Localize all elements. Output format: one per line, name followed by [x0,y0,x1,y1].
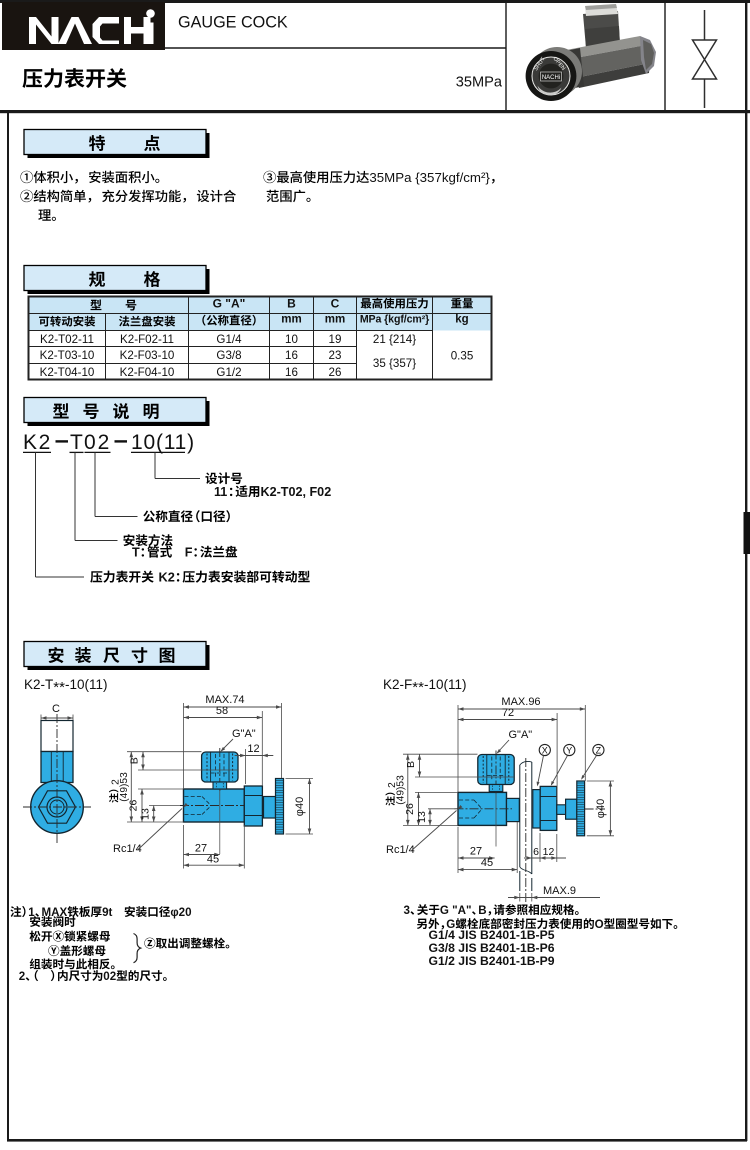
svg-text:3: 3 [404,904,411,917]
svg-text:2: 2 [19,970,25,983]
svg-text:6: 6 [533,846,539,858]
svg-text:K2: K2 [159,570,175,585]
dim 53 (49) [130,752,132,822]
svg-text:45: 45 [481,857,493,869]
svg-text:mm: mm [325,314,345,326]
leader: design number [154,452,156,478]
svg-text:19: 19 [329,333,342,346]
cap nut Y [540,786,557,830]
front view: knob circle [31,781,84,834]
svg-text:11: 11 [214,485,227,499]
front view: center lines [23,806,91,808]
svg-text:0.35: 0.35 [451,349,474,362]
dim phi40 [587,780,614,782]
svg-text:72: 72 [502,707,514,719]
dim 12 [245,749,247,784]
svg-text:26: 26 [128,800,140,812]
body thread hidden lines [459,799,474,801]
svg-text:27: 27 [195,843,207,855]
knurled knob edge [276,779,284,835]
dim 45 [183,825,185,869]
adjust shaft [557,805,566,815]
svg-text:13: 13 [140,808,152,820]
svg-text:K2-T02-11: K2-T02-11 [40,333,94,346]
mounting plate (panel) [520,763,532,868]
svg-text:X: X [542,746,548,756]
leader: gauge cock type [35,452,37,577]
svg-text:K2: K2 [23,431,52,454]
notes left [10,906,25,917]
svg-text:F: F [185,546,193,560]
svg-text:O: O [595,918,604,931]
svg-text:G1/2: G1/2 [216,366,241,379]
right edge bleed tab [744,512,750,554]
header cell dividers [505,0,507,111]
svg-text:G1/4 JIS B2401-1B-P5: G1/4 JIS B2401-1B-P5 [429,928,555,942]
dims 6 / 12 [539,833,541,862]
section box 规格 [28,269,210,294]
feature text [20,171,159,184]
left vertical dims [403,753,478,755]
svg-text:10: 10 [285,333,298,346]
dim 26 [141,789,143,822]
side view: main body [184,789,245,822]
dim C [41,717,73,719]
svg-text:φ20: φ20 [170,906,191,919]
locknut X [533,790,540,828]
svg-text:φ40: φ40 [595,799,607,818]
svg-text:GAUGE COCK: GAUGE COCK [178,14,288,32]
svg-text:B: B [478,904,486,917]
dim 58 [261,711,263,786]
front view: hex nut [41,752,73,783]
svg-text:13: 13 [416,811,428,823]
svg-text:(49)53: (49)53 [119,772,130,802]
page top border [0,0,750,3]
body thread (Rc1/4) hidden lines [185,796,203,798]
svg-text:K2-F03-10: K2-F03-10 [120,349,175,362]
svg-text:G "A": G "A" [213,297,246,311]
svg-text:35MPa: 35MPa [456,75,503,91]
svg-text:Z: Z [596,746,602,756]
svg-text:T: T [70,431,83,454]
svg-text:02: 02 [84,431,111,454]
svg-text:B: B [287,297,296,311]
dim MAX.74 [183,703,185,789]
gauge port fitting G"A" [478,755,514,785]
svg-text:45: 45 [207,854,219,866]
svg-text:16: 16 [285,349,298,362]
product photo: gauge cock valve [526,4,656,101]
collar [507,798,520,821]
page border left/right/bottom [7,110,9,1141]
left vertical dims [127,751,202,753]
svg-text:mm: mm [281,314,301,326]
svg-text:G1/4: G1/4 [216,333,242,346]
front view: top port outline [41,721,73,752]
svg-text:K2-F04-10: K2-F04-10 [120,366,175,379]
circled X Y Z [539,744,550,755]
svg-text:φ40: φ40 [294,797,306,816]
svg-text:12: 12 [247,743,259,755]
shaft [264,797,276,819]
svg-text:kg: kg [455,314,468,326]
hex connector [244,786,262,826]
svg-text:B: B [405,761,417,768]
header bottom thick rule [0,110,750,113]
front view: neck [50,783,64,791]
NACHI logo box [2,2,165,50]
svg-text:G "A": G "A" [440,904,472,917]
svg-text:Rc1/4: Rc1/4 [113,843,142,855]
dim 13 [153,806,155,823]
svg-text:G3/8 JIS B2401-1B-P6: G3/8 JIS B2401-1B-P6 [429,941,555,955]
svg-text:NACHi: NACHi [542,75,560,81]
svg-text:K2-T02, F02: K2-T02, F02 [261,485,332,499]
dim MAX.9 [519,893,521,902]
svg-text:27: 27 [470,846,482,858]
svg-text:Rc1/4: Rc1/4 [386,844,415,856]
gauge port fitting G"A" [202,752,238,782]
front view: hex body [39,791,76,823]
bolt head [566,799,577,819]
svg-text:G"A": G"A" [232,728,256,740]
svg-text:26: 26 [329,366,342,379]
svg-text:26: 26 [404,803,416,815]
svg-text:12: 12 [543,846,555,858]
fitting neck [213,782,227,789]
knurled knob edge [577,781,585,836]
svg-text:MAX.9: MAX.9 [543,885,576,897]
svg-text:G1/2 JIS B2401-1B-P9: G1/2 JIS B2401-1B-P9 [429,954,555,968]
svg-text:K2-T03-10: K2-T03-10 [40,349,95,362]
dim phi40 [286,778,314,780]
side view: main body [458,792,507,825]
valve symbol [704,10,706,40]
front view: center hole [47,797,67,817]
svg-text:MPa {kgf/cm²}: MPa {kgf/cm²} [360,314,429,326]
dim MAX.96 [457,705,459,792]
chinese title 压力表开关 [22,68,126,88]
svg-text:G"A": G"A" [509,729,533,741]
svg-text:02: 02 [103,970,116,983]
leader: nominal diameter [94,452,96,516]
spec table [29,297,492,380]
svg-text:35 {357}: 35 {357} [373,357,416,370]
svg-text:C: C [52,703,60,715]
fitting neck [489,785,503,792]
svg-text:B: B [129,757,141,764]
svg-text:9t: 9t [102,906,112,919]
svg-text:35MPa {357kgf/cm²}: 35MPa {357kgf/cm²} [369,170,490,185]
section box 安装尺寸图 [28,645,210,670]
svg-text:C: C [331,297,340,311]
svg-text:T: T [132,546,140,560]
svg-text:K2-F02-11: K2-F02-11 [120,333,174,346]
svg-text:10(11): 10(11) [131,431,195,454]
dim 45 [457,827,459,873]
svg-text:Y: Y [566,746,572,756]
svg-text:K2-T04-10: K2-T04-10 [40,366,95,379]
dim 27 [184,854,220,856]
section box 型号说明 [28,401,210,426]
svg-text:23: 23 [329,349,342,362]
dim B [142,752,144,770]
svg-text:(49)53: (49)53 [395,775,406,805]
svg-text:G3/8: G3/8 [216,349,241,362]
svg-text:16: 16 [285,366,298,379]
svg-text:58: 58 [216,705,228,717]
dim 72 [556,713,558,800]
svg-text:21 {214}: 21 {214} [373,333,416,346]
leader: mounting method [74,452,76,540]
dim 27 [458,857,495,859]
section box 特点 [28,133,210,158]
